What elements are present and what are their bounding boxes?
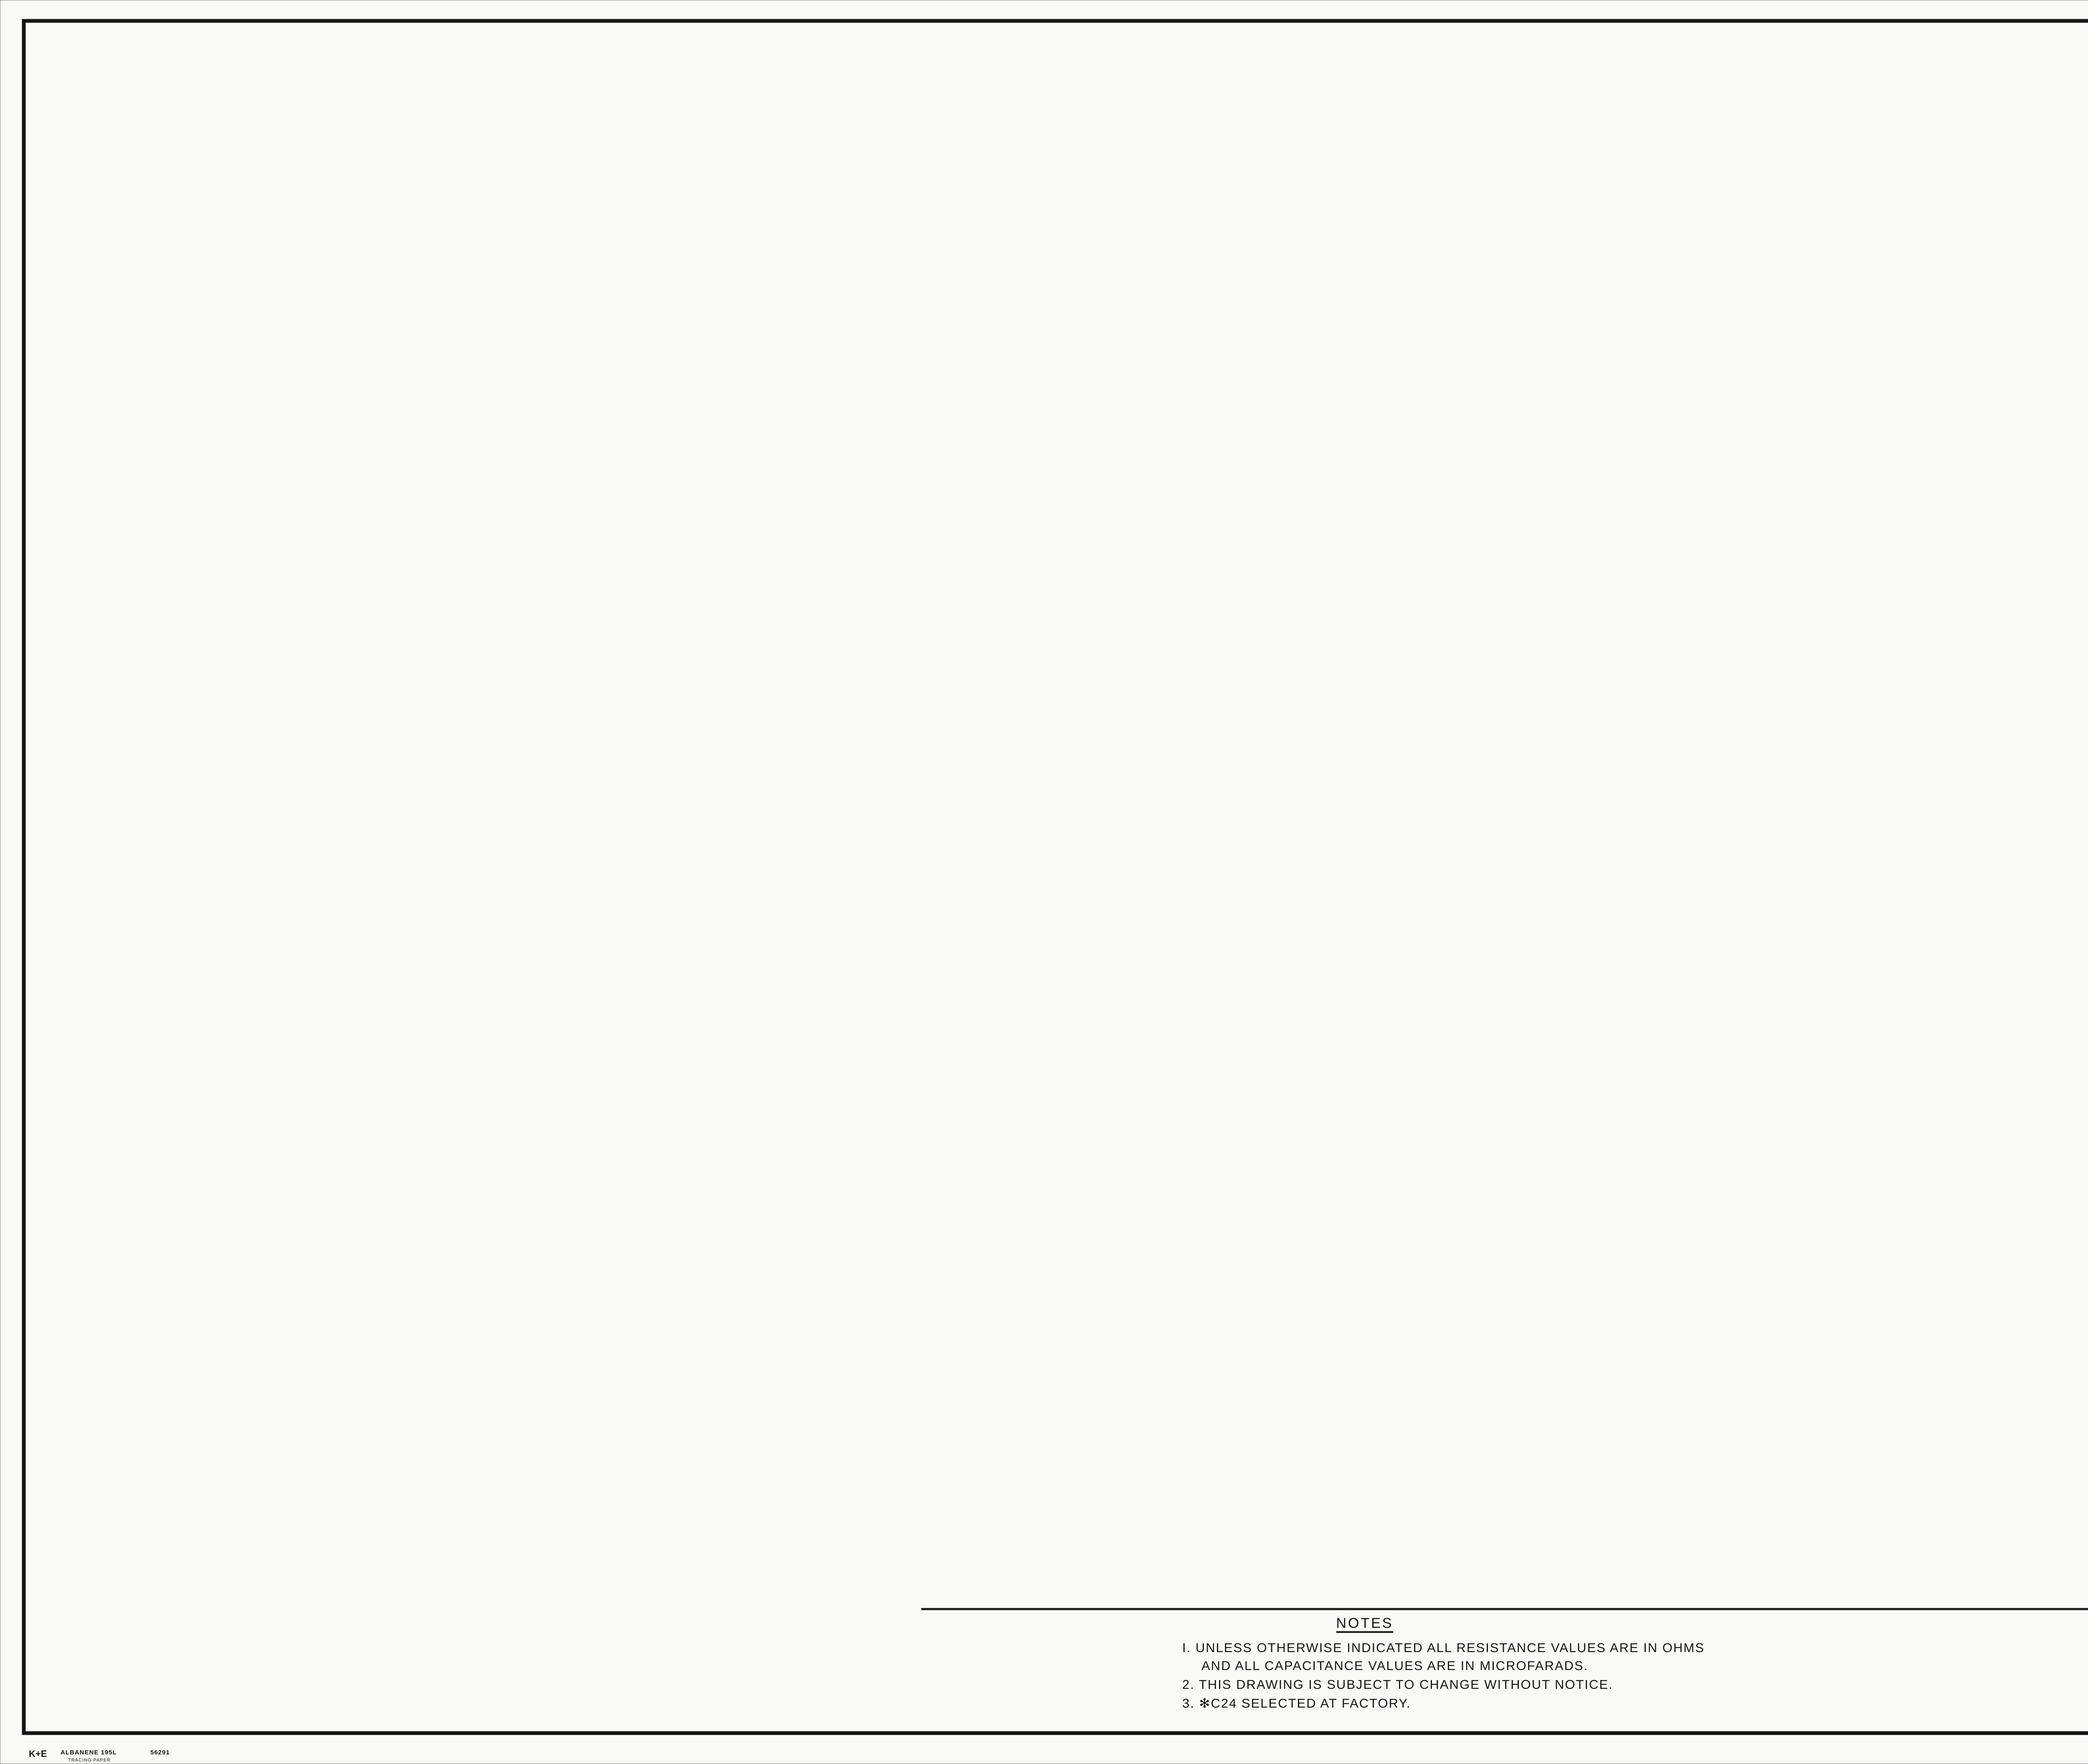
svg-text:K+E: K+E	[29, 1749, 47, 1759]
svg-text:2. THIS DRAWING IS SUBJECT: 2. THIS DRAWING IS SUBJECT TO CHANGE WIT…	[1182, 1677, 1613, 1692]
svg-text:ALBANENE 195L: ALBANENE 195L	[61, 1749, 117, 1756]
svg-text:NOTES: NOTES	[1336, 1615, 1393, 1631]
notes separator line	[921, 1608, 2088, 1610]
svg-text:56291: 56291	[150, 1749, 170, 1756]
svg-text:AND ALL CAPACITANCE VALUES: AND ALL CAPACITANCE VALUES ARE IN MICROF…	[1201, 1658, 1588, 1673]
svg-text:TRACING PAPER: TRACING PAPER	[68, 1758, 111, 1763]
svg-text:3. ✻C24 SELECTED AT FACTOR: 3. ✻C24 SELECTED AT FACTORY.	[1182, 1696, 1411, 1711]
svg-text:I. UNLESS OTHERWISE INDICAT: I. UNLESS OTHERWISE INDICATED ALL RESIST…	[1182, 1640, 1705, 1655]
